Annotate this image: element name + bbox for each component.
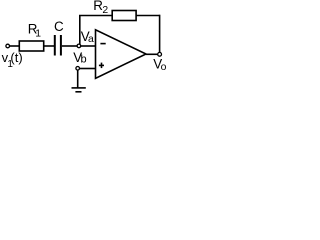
- wire C to node A: [62, 45, 77, 47]
- svg-text:1: 1: [35, 29, 41, 40]
- wire input to R1: [10, 45, 20, 47]
- node output (Vo): [158, 52, 162, 56]
- wire R1 to C: [44, 45, 55, 47]
- wire op-amp output to node Vo: [146, 53, 158, 55]
- svg-text:2: 2: [102, 5, 108, 16]
- svg-text:o: o: [161, 62, 167, 73]
- op-amp plus sign: [99, 64, 104, 66]
- wire node B down to ground: [77, 70, 79, 88]
- svg-text:(t): (t): [10, 50, 22, 65]
- wire node A up (feedback riser): [79, 16, 81, 45]
- node A (Va): [77, 44, 81, 48]
- capacitor C: [55, 35, 61, 56]
- resistor R1: [19, 41, 43, 51]
- op-amp minus sign: [100, 43, 105, 45]
- wire node A to op-amp inverting input: [81, 45, 95, 47]
- node B (Vb): [76, 67, 80, 71]
- wire top to R2: [79, 15, 112, 17]
- svg-text:C: C: [54, 19, 64, 34]
- op-amp U1: [96, 30, 147, 79]
- input terminal: [6, 44, 10, 48]
- wire feedback down to output node: [159, 15, 161, 53]
- resistor R2: [112, 11, 136, 21]
- svg-text:a: a: [88, 34, 94, 45]
- wire node B to op-amp non-inverting input: [80, 68, 96, 70]
- wire R2 to corner: [136, 15, 160, 17]
- ground: [72, 87, 86, 89]
- svg-text:b: b: [81, 54, 87, 66]
